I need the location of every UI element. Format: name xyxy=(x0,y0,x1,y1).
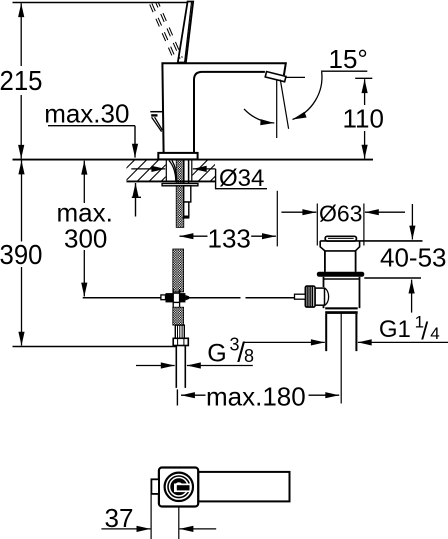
dimension 215 line lower xyxy=(20,95,22,159)
drain dome cap xyxy=(325,236,356,241)
lever handle phantom dashed right edge xyxy=(156,2,182,59)
side lever tab top line xyxy=(150,111,162,113)
max.30 leader underline xyxy=(48,125,135,127)
rod fitting right taper xyxy=(185,295,189,301)
hose tube below fitting xyxy=(173,302,179,307)
countertop surface line xyxy=(13,159,374,161)
max.30 lower arrow below counter xyxy=(135,183,137,217)
37 extension line right xyxy=(178,507,180,539)
dimension G3/8 left arrow xyxy=(136,365,175,367)
faucet body outline xyxy=(162,63,285,153)
pop-up rod right segment xyxy=(246,297,297,299)
svg-text:390: 390 xyxy=(0,239,42,270)
top view side tab xyxy=(151,479,159,494)
stud end cap xyxy=(183,216,190,218)
knob knurling xyxy=(307,286,312,306)
lever handle solid xyxy=(178,2,193,63)
37 extension line left xyxy=(150,495,152,539)
svg-text:Ø34: Ø34 xyxy=(219,165,264,192)
dimension 390 lower arrow xyxy=(21,267,23,346)
svg-text:8: 8 xyxy=(244,346,254,366)
aerator datum line xyxy=(286,76,305,78)
hole edge right xyxy=(191,160,193,180)
svg-text:Ø63: Ø63 xyxy=(319,201,362,227)
110 top tick xyxy=(355,77,372,79)
dimension 40-53 lower arrow xyxy=(411,280,413,313)
dimension Ø63 right arrow xyxy=(365,211,405,213)
rod fitting centre xyxy=(173,293,179,302)
dimension Ø63 left arrow xyxy=(281,211,316,213)
aerator at 15 deg xyxy=(265,72,286,82)
swivel arc left xyxy=(244,109,274,123)
rod end coupling xyxy=(295,294,306,299)
GROHE logo outer circle xyxy=(165,473,193,501)
Ø63 extension line right xyxy=(363,204,365,246)
svg-text:G1: G1 xyxy=(379,316,411,343)
spout centre extension line xyxy=(276,191,278,247)
rod fitting left coupling xyxy=(161,295,166,300)
locknut band upper xyxy=(325,307,358,309)
shank right wall lines xyxy=(184,160,189,183)
svg-text:110: 110 xyxy=(343,104,384,134)
nut facet lines xyxy=(178,339,184,346)
lever handle phantom dashed left edge xyxy=(150,3,176,60)
dimension G1 1/4 left arrow xyxy=(244,341,325,343)
lever handle inner line xyxy=(185,2,192,63)
dimension Ø34 left arrow xyxy=(131,168,165,170)
rubber seal ring xyxy=(317,272,365,277)
dimension 133 left arrow xyxy=(180,235,208,237)
mounting stud lower xyxy=(184,202,189,216)
svg-text:37: 37 xyxy=(105,503,134,533)
40-53 lower reference line xyxy=(364,277,421,279)
base plate xyxy=(158,153,197,160)
dimension 40-53 upper arrow xyxy=(411,204,413,240)
port inner curve xyxy=(325,288,329,305)
small tick on lower arrow xyxy=(132,196,141,198)
drain body upper walls xyxy=(325,251,356,272)
svg-text:300: 300 xyxy=(64,224,107,254)
dimension max.180 left arrow xyxy=(181,394,206,396)
rod fitting left block xyxy=(166,293,174,302)
top view body cap xyxy=(159,468,198,507)
dimension Ø34 right arrow xyxy=(193,168,216,170)
svg-text:215: 215 xyxy=(0,65,42,96)
hose nut xyxy=(173,338,188,345)
svg-text:15°: 15° xyxy=(329,44,368,74)
rod port on drain xyxy=(315,288,325,305)
dimension 133 right arrow xyxy=(251,235,276,237)
braided hose middle segment xyxy=(173,249,184,292)
hose ferrule xyxy=(175,325,184,338)
counter hatch right xyxy=(185,157,235,183)
knurled knob xyxy=(305,286,315,307)
braided hose lower segment xyxy=(173,307,184,325)
under-seal flange line xyxy=(324,278,360,280)
svg-text:4: 4 xyxy=(430,324,439,343)
dimension max.300 upper arrow xyxy=(83,161,85,203)
pop-up rod left segment xyxy=(83,297,241,299)
dimension 37 leader and left arrow xyxy=(101,528,150,530)
top view lever rectangle xyxy=(198,472,289,502)
Ø63 extension line left xyxy=(316,204,318,246)
svg-text:/: / xyxy=(421,318,428,346)
svg-text:max.30: max.30 xyxy=(44,99,129,129)
braided hose upper segment xyxy=(176,160,184,228)
counter bottom line xyxy=(127,180,216,182)
dimension 110 upper arrow xyxy=(364,79,366,105)
nipple tube walls xyxy=(176,346,185,388)
spout plumb line xyxy=(276,81,278,139)
GROHE logo bar xyxy=(177,485,190,490)
mounting stud upper xyxy=(184,186,191,202)
dome cap inner line xyxy=(328,237,354,239)
dimension max.180 right arrow xyxy=(309,394,340,396)
counter hatch left xyxy=(112,157,186,183)
svg-text:133: 133 xyxy=(208,224,251,254)
GROHE logo inner circle xyxy=(168,476,190,498)
GROHE logo G ring xyxy=(172,480,185,493)
GROHE logo slot knockout xyxy=(174,484,191,493)
dimension 215 line upper xyxy=(20,3,22,66)
dimension 390 upper arrow xyxy=(21,161,23,242)
side lever diagonal lines xyxy=(152,117,163,131)
svg-text:40-53: 40-53 xyxy=(380,243,447,273)
Ø34 leader corner xyxy=(216,169,267,189)
rod fitting right block xyxy=(180,293,186,302)
dimension max.300 lower arrow xyxy=(83,250,85,297)
drain flange xyxy=(320,241,359,251)
390 bottom reference line xyxy=(13,346,177,348)
faucet spout underside xyxy=(194,72,265,153)
basin surface line at drain xyxy=(320,240,422,242)
svg-text:max.180: max.180 xyxy=(206,382,306,412)
dimension 110 lower arrow xyxy=(364,131,366,159)
max.30 arrow to countertop xyxy=(134,126,136,158)
spout swivel slant line xyxy=(280,80,288,129)
tailpipe walls xyxy=(326,314,356,351)
top extension line xyxy=(13,2,194,4)
15 deg leader underline xyxy=(321,70,367,72)
ferrule stripes xyxy=(178,325,183,338)
dimension G3/8 right arrow leader xyxy=(187,365,253,367)
washer plate xyxy=(162,184,198,186)
dimension G1 1/4 right arrow xyxy=(358,341,448,343)
drain centre line xyxy=(340,314,342,404)
dimension 37 right arrow xyxy=(180,528,217,530)
drain body lower walls xyxy=(324,277,360,308)
side lever tab block xyxy=(151,114,157,116)
shank cutaway curves xyxy=(169,161,177,181)
svg-text:G: G xyxy=(207,339,226,367)
hole edge left xyxy=(165,160,167,180)
locknut band lower xyxy=(325,311,358,314)
max.180 left tick xyxy=(176,389,178,405)
hose tube above fitting xyxy=(173,289,179,293)
swivel arc right xyxy=(293,72,322,120)
